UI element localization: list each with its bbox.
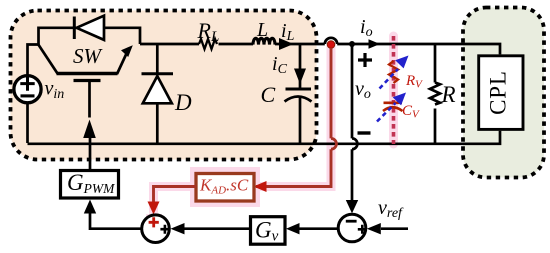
red wire from node to K block <box>256 48 331 187</box>
wire: vin bottom <box>26 103 29 143</box>
wire: RL to L <box>219 43 254 46</box>
Gv block <box>251 217 286 245</box>
pink glow circle1 plus <box>146 214 162 229</box>
minus in circle2 <box>346 220 357 223</box>
voltage source vin <box>14 76 41 103</box>
switch SW: gate bar <box>74 79 101 82</box>
wire: diode branch <box>156 44 159 144</box>
svg-text:D: D <box>174 90 192 115</box>
junction dot vo sense <box>349 41 355 47</box>
minus vo <box>358 131 371 134</box>
plus in circle2 <box>358 225 367 234</box>
red node dot <box>327 41 335 49</box>
inductor L <box>253 38 275 44</box>
wire: SW/diode top rail <box>39 28 141 45</box>
arrow io <box>369 39 381 49</box>
wire: capacitor branch <box>299 44 302 144</box>
capacitor C <box>286 88 312 91</box>
control arrow into gate <box>83 120 96 139</box>
CV capacitor symbol <box>384 102 403 105</box>
resistor RL <box>199 39 217 49</box>
arrowhead vo into circle2 <box>346 200 358 213</box>
red dashed virtual impedance line <box>392 36 396 144</box>
svg-text:CPL: CPL <box>486 70 511 115</box>
red arrowhead into K block <box>254 181 267 192</box>
antiparallel diode over SW <box>73 17 76 40</box>
GPWM block <box>61 171 119 199</box>
pink glow under red network <box>154 36 394 212</box>
wire: hop over red dot <box>325 38 337 44</box>
wire: Gv to circle1 <box>183 227 251 230</box>
arrowhead circle1 into GPWM <box>84 200 96 214</box>
black plus in circle1 <box>160 225 169 234</box>
wire: R branch <box>434 44 437 144</box>
power stage dashed box (peach) <box>11 11 317 160</box>
wire: bottom rail <box>28 131 501 144</box>
switch SW: arrow to rail <box>117 54 127 75</box>
svg-text:L: L <box>256 19 268 41</box>
wire: vref input <box>381 227 408 230</box>
blue arrow CV <box>377 103 396 122</box>
wire: top rail SW to RL <box>140 43 199 46</box>
red wire K block to circle1 <box>154 187 197 204</box>
wire: L to red node <box>275 43 325 46</box>
svg-text:C: C <box>261 82 276 107</box>
arrow iC <box>294 69 306 85</box>
resistor R <box>430 83 440 105</box>
CPL dashed box (green) <box>463 8 544 178</box>
switch SW: plate bar <box>57 72 118 75</box>
wire: node to CPL top <box>337 44 500 54</box>
CPL block <box>479 56 523 130</box>
summing circle 1 <box>142 215 170 243</box>
arrowhead vref into circle2 <box>367 223 381 234</box>
wire: GPWM to gate <box>89 136 92 171</box>
RV zigzag symbol <box>389 61 398 83</box>
red arrowhead into circle1 <box>148 202 160 215</box>
red plus in circle1 <box>149 217 159 227</box>
pink glow K block <box>190 167 260 207</box>
switch SW: left slant <box>38 44 58 74</box>
svg-text:R: R <box>441 82 456 107</box>
wire: circle2 to Gv <box>297 227 338 230</box>
svg-text:SW: SW <box>73 44 104 68</box>
arrowhead into Gv <box>286 223 300 234</box>
arrowhead Gv into circle1 <box>171 223 185 234</box>
arrow iL <box>279 38 294 50</box>
diode D <box>142 72 174 75</box>
K block <box>196 174 254 202</box>
red wire hop over rail <box>331 138 336 149</box>
blue arrow RV <box>380 69 399 89</box>
wire: circle1 to GPWM <box>90 212 141 229</box>
summing circle 2 <box>338 214 366 242</box>
wire: vin top to SW <box>28 28 501 229</box>
wire: vo sense drop with hop <box>351 44 354 202</box>
plus vo <box>358 53 372 67</box>
wire: SW gate lead <box>88 81 91 118</box>
